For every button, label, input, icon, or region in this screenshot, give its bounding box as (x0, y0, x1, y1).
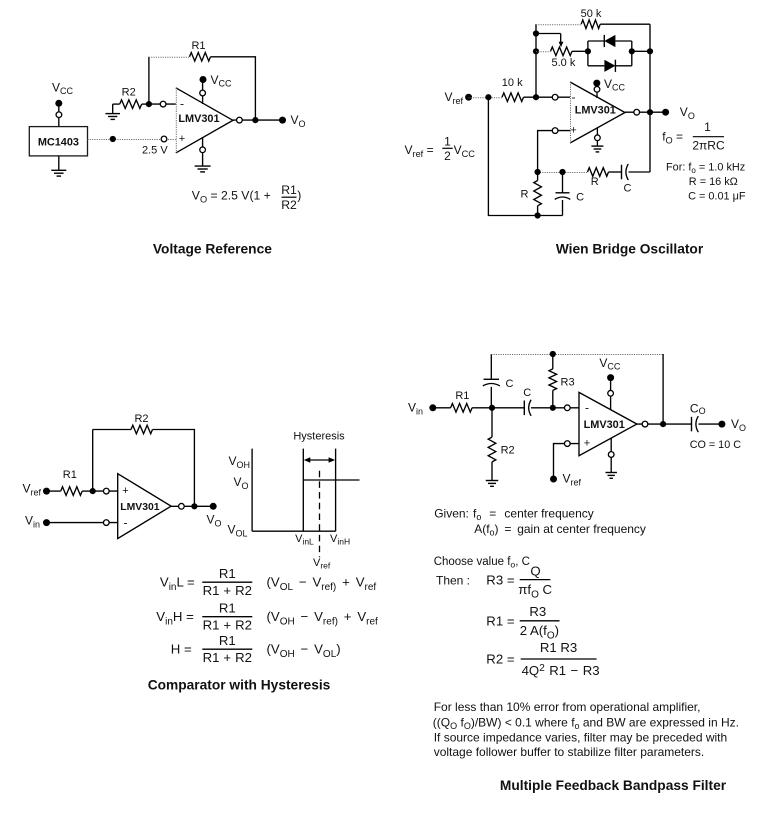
Vcc pin wire (wien) (596, 83, 598, 98)
wire (5.0k to diode pair) (572, 50, 588, 52)
svg-text:+: + (570, 125, 576, 137)
VinL threshold line (302, 449, 304, 532)
R1 label (bandpass) (455, 390, 469, 402)
formula Vo = 2.5 V(1 + R1/R2) (192, 183, 301, 212)
hysteresis arrow (304, 457, 335, 463)
R label (parallel) (521, 189, 529, 201)
wire (diode box to right rail) (632, 50, 650, 52)
Vcc pin wire (bandpass) (610, 378, 612, 410)
title Voltage Reference (153, 242, 272, 257)
svg-text:LMV301: LMV301 (584, 419, 625, 431)
svg-text:R1 =: R1 = (486, 613, 515, 628)
Vcc terminal dot (op-amp) (200, 76, 207, 83)
Vcc pin wire (202, 80, 204, 105)
R1 label (comparator) (63, 469, 77, 481)
note C = 0.01 uF (688, 190, 746, 202)
wire (Vref rail) (488, 97, 562, 215)
Vcc terminal dot (bandpass) (607, 374, 614, 381)
Vref label (bandpass) (563, 472, 582, 488)
10 k label (502, 77, 523, 89)
R2 label (122, 87, 136, 99)
svg-text:+: + (584, 438, 590, 450)
note A(fo) (474, 522, 646, 538)
wire (top 50k row right) (600, 23, 650, 25)
svg-text:For: fo = 1.0 kHz: For: fo = 1.0 kHz (666, 162, 745, 176)
C label (series cap) (523, 387, 531, 399)
node (wiper feed) (533, 30, 539, 36)
pin circle (inverting input comparator) (103, 520, 109, 526)
pin circle (ground pin) (200, 147, 206, 153)
R label (series) (591, 176, 599, 188)
wire (2.5V reference to noninverting input) (88, 139, 176, 141)
Vin label (bandpass) (408, 400, 423, 416)
ground (R2) (105, 104, 120, 119)
Vo label (wien) (680, 105, 695, 121)
diode D2 (anode left, cathode right) (604, 60, 615, 72)
Vcc terminal dot (wien op-amp) (593, 80, 600, 87)
2.5 V label (142, 145, 168, 157)
title Multiple Feedback Bandpass Filter (500, 778, 727, 793)
pin circle (bandpass Vcc pin) (608, 390, 614, 396)
note error paragraph line 3 (434, 731, 727, 745)
op-amp U3 LMV301 (118, 474, 171, 539)
Vo label (bandpass) (731, 417, 746, 433)
Vref terminal dot (bandpass) (550, 476, 557, 483)
wire (top feedback rail) (491, 354, 663, 356)
svg-text:=: = (489, 507, 496, 521)
node (R parallel junction) (535, 169, 541, 175)
pin circle (inverting input wien) (552, 94, 558, 100)
wire (10k to inverting input) (524, 96, 571, 98)
pin circle (wien Vcc pin) (594, 86, 600, 92)
wire (R to C series) (609, 171, 622, 173)
svg-text:1: 1 (444, 135, 451, 149)
wire (5.0k left lead) (536, 51, 551, 53)
svg-text:R1: R1 (219, 600, 236, 615)
node (inverting node wien) (533, 94, 539, 100)
pin circle (noninverting input bandpass) (564, 441, 570, 447)
formula R3 (436, 563, 553, 600)
Vref label (graph) (313, 557, 331, 571)
wire (Vcc to MC1403) (58, 103, 60, 126)
VinH label (330, 533, 350, 547)
svg-text:R1: R1 (219, 633, 236, 648)
node (comparator output junction) (191, 503, 197, 509)
Vo terminal dot (wien) (662, 109, 669, 116)
VOL label (228, 523, 248, 539)
Vcc label (op-amp supply) (211, 73, 233, 88)
node (wien output junction) (647, 109, 653, 115)
note error paragraph line 4 (434, 745, 705, 759)
ground (MC1403) (51, 156, 66, 176)
node (R3 top junction) (550, 351, 556, 357)
svg-text:=: = (504, 522, 511, 536)
VO label (graph) (234, 475, 249, 491)
VOH label (229, 454, 251, 470)
node (output junction) (252, 117, 258, 123)
ground pin wire (wien) (596, 128, 598, 146)
Vcc label (voltage reference supply) (52, 81, 74, 96)
svg-text:2.5 V: 2.5 V (142, 145, 168, 157)
svg-text:LMV301: LMV301 (120, 502, 159, 513)
pin circle (noninverting input comparator) (103, 488, 109, 494)
resistor R1 (190, 53, 211, 62)
wire (Vref to 10k) (469, 97, 502, 99)
svg-text:R1: R1 (455, 390, 469, 402)
svg-text:R1 + R2: R1 + R2 (203, 650, 252, 665)
5.0 k label (551, 57, 575, 69)
formula R2 (486, 640, 599, 678)
wire (to noninverting input) (93, 490, 118, 492)
svg-text:4Q2 R1 − R3: 4Q2 R1 − R3 (522, 663, 600, 678)
svg-text:R2: R2 (501, 445, 515, 457)
output level line (303, 479, 359, 481)
svg-text:-: - (585, 401, 589, 415)
50 k label (581, 8, 602, 20)
svg-text:C = 0.01 μF: C = 0.01 μF (688, 190, 746, 202)
pin circle (noninverting input) (161, 136, 167, 142)
svg-text:C: C (624, 183, 632, 195)
svg-text:50 k: 50 k (581, 8, 602, 20)
wire (feedback left) (149, 57, 190, 104)
svg-text:R1: R1 (63, 469, 77, 481)
wire (wien output) (625, 111, 666, 113)
note error paragraph line 1 (434, 700, 701, 714)
formula VinH (156, 600, 378, 632)
Vcc label (wien op-amp) (604, 77, 626, 92)
pin circle (MC1403 Vcc pin) (56, 112, 62, 118)
wire (right feedback rail) (662, 354, 664, 424)
svg-text:R2: R2 (281, 198, 297, 212)
svg-text:voltage follower buffer to sta: voltage follower buffer to stabilize fil… (434, 745, 705, 759)
svg-text:C: C (523, 387, 531, 399)
svg-text:+: + (179, 133, 185, 145)
wire (diode box frame) (588, 41, 632, 66)
resistor R (parallel) (534, 172, 542, 216)
resistor R2 (bandpass) (488, 408, 496, 481)
svg-text:R3 =: R3 = (486, 572, 515, 587)
svg-text:R = 16 kΩ: R = 16 kΩ (689, 176, 738, 188)
op-amp U1 LMV301 (176, 88, 233, 153)
node (diode box left) (585, 48, 591, 54)
capacitor C (series input) (492, 400, 553, 416)
svg-text:R1 + R2: R1 + R2 (203, 583, 252, 598)
note Given fo (434, 507, 594, 523)
wire (wiper feed) (536, 34, 561, 44)
Vin terminal dot (comparator) (43, 519, 50, 526)
formula fo = 1/2piRC (662, 120, 725, 152)
diode D1 (anode right, cathode left) (604, 35, 615, 47)
pin circle (bandpass ground pin) (608, 452, 614, 458)
wire (feedback right) (211, 57, 256, 120)
svg-text:fO =: fO = (662, 130, 683, 146)
wire (RC row left) (538, 172, 588, 174)
svg-text:gain at center frequency: gain at center frequency (517, 522, 646, 536)
wire (top 50k row left) (536, 24, 581, 26)
svg-text:Comparator with Hysteresis: Comparator with Hysteresis (148, 678, 331, 693)
Vo label (comparator) (207, 513, 222, 529)
wire (feedback right comparator) (153, 430, 195, 507)
svg-text:R1 + R2: R1 + R2 (203, 617, 252, 632)
graph y-axis (251, 449, 253, 532)
op-amp U4 LMV301 (579, 392, 637, 455)
ground (wien op-amp) (591, 146, 603, 152)
note Choose value (434, 556, 530, 570)
Vcc terminal dot (55, 100, 62, 107)
capacitor C (parallel) (555, 172, 571, 216)
pin circle (noninverting input wien) (552, 128, 558, 134)
R2 label (comparator) (134, 413, 148, 425)
svg-text:R2 =: R2 = (486, 652, 515, 667)
graph x-axis (252, 530, 336, 532)
capacitor Co (output) (692, 416, 722, 432)
svg-text:+: + (122, 485, 128, 497)
svg-text:10 k: 10 k (502, 77, 523, 89)
node (bandpass output junction) (660, 421, 666, 427)
ground pin wire (202, 137, 204, 166)
svg-text:-: - (124, 515, 128, 529)
svg-text:1: 1 (704, 120, 711, 134)
wire (noninverting input wien) (538, 131, 570, 172)
svg-text:Given:: Given: (434, 507, 469, 521)
wire (to inverting input bandpass) (553, 407, 579, 409)
title Wien Bridge Oscillator (556, 242, 704, 257)
resistor R1 (comparator) (47, 487, 93, 496)
pin circle (output) (237, 117, 243, 123)
wire (noninverting input bandpass) (554, 444, 580, 479)
svg-text:If source impedance varies, fi: If source impedance varies, filter may b… (434, 731, 727, 745)
wire (right rail) (649, 24, 651, 172)
svg-text:5.0 k: 5.0 k (551, 57, 575, 69)
pin circle (inverting input bandpass) (564, 405, 570, 411)
note R = 16 kOhm (689, 176, 738, 188)
wire (Vin to inverting input) (47, 522, 118, 524)
resistor 5.0 k (551, 47, 573, 56)
resistor R1 (bandpass) (433, 404, 492, 413)
ground (R2 bandpass) (486, 481, 499, 487)
Co label (690, 401, 706, 416)
wire (feedback vertical) (535, 24, 537, 97)
svg-text:LMV301: LMV301 (178, 113, 219, 125)
Vcc label (bandpass op-amp) (599, 356, 621, 371)
node (2.5V node) (110, 136, 116, 142)
pin circle (comparator output) (179, 503, 185, 509)
svg-text:R2: R2 (122, 87, 136, 99)
note error paragraph line 2 (433, 715, 739, 731)
VinH threshold line (335, 449, 337, 532)
svg-text:LMV301: LMV301 (575, 105, 616, 117)
resistor R2 (comparator feedback) (131, 425, 153, 434)
svg-text:R3: R3 (561, 377, 575, 389)
svg-text:-: - (572, 90, 576, 104)
svg-text:2: 2 (444, 149, 451, 163)
svg-text:Hysteresis: Hysteresis (293, 431, 345, 443)
svg-text:Choose value fo, C: Choose value fo, C (434, 556, 530, 570)
node (input summing node) (489, 405, 495, 411)
pin circle (bandpass output) (642, 421, 648, 427)
ground (bandpass op-amp) (605, 473, 617, 479)
svg-text:R: R (591, 176, 599, 188)
wire (inverting input) (149, 103, 176, 105)
wire (comparator output) (171, 505, 213, 507)
wire (output) (233, 119, 283, 121)
C label (parallel) (576, 192, 584, 204)
svg-text:CO = 10 C: CO = 10 C (690, 439, 742, 451)
svg-text:For less than 10% error from o: For less than 10% error from operational… (434, 700, 701, 714)
node (C parallel junction) (559, 169, 565, 175)
node (diode box right) (629, 48, 635, 54)
svg-text:Voltage Reference: Voltage Reference (153, 242, 272, 257)
svg-text:Wien Bridge Oscillator: Wien Bridge Oscillator (556, 242, 704, 257)
title Comparator with Hysteresis (148, 678, 331, 693)
svg-text:R: R (521, 189, 529, 201)
resistor R (series) (588, 168, 609, 177)
svg-text:2πRC: 2πRC (692, 138, 725, 152)
svg-text:C: C (506, 378, 514, 390)
Vref dashed line (319, 471, 321, 558)
pin circle (Vcc pin) (200, 90, 206, 96)
svg-text:R1: R1 (191, 40, 205, 52)
ground (op-amp) (195, 166, 211, 172)
wire (feedback left comparator) (93, 430, 131, 492)
Vref label (comparator) (23, 482, 42, 498)
Vref terminal dot (wien) (465, 94, 472, 101)
resistor 10 k (502, 93, 524, 102)
wire (bandpass output) (637, 423, 692, 425)
svg-text:R1: R1 (219, 566, 236, 581)
Vin terminal dot (bandpass) (429, 404, 436, 411)
Vo terminal dot (279, 117, 286, 124)
svg-text:Then :: Then : (436, 573, 470, 587)
node (5.0k row) (533, 48, 539, 54)
svg-text:C: C (576, 192, 584, 204)
C label (feedback cap) (506, 378, 514, 390)
pin circle (wien output) (634, 109, 640, 115)
C label (series) (624, 183, 632, 195)
svg-text:Multiple Feedback Bandpass Fil: Multiple Feedback Bandpass Filter (500, 778, 727, 793)
wire (C to right rail) (629, 171, 651, 173)
Vo terminal dot (bandpass) (718, 421, 725, 428)
node (bottom junction) (535, 212, 541, 218)
op-amp U2 LMV301 (570, 82, 625, 143)
R3 label (561, 377, 575, 389)
VinL label (295, 533, 314, 547)
Vref terminal dot (comparator) (43, 488, 50, 495)
capacitor C (feedback, vertical) (483, 354, 500, 408)
node (inverting node bandpass) (550, 405, 556, 411)
node (right rail at diode row) (647, 48, 653, 54)
svg-text:Q: Q (530, 563, 540, 578)
wiper arrow (5.0k rheostat) (559, 42, 564, 48)
R2 label (bandpass) (501, 445, 515, 457)
node (inverting input) (146, 101, 152, 107)
Hysteresis label (293, 431, 345, 443)
svg-text:): ) (297, 189, 301, 203)
svg-text:R1: R1 (281, 183, 297, 197)
svg-text:center frequency: center frequency (504, 507, 593, 521)
R1 label (191, 40, 205, 52)
node (Vref junction) (485, 94, 491, 100)
Vo terminal dot (comparator) (210, 503, 217, 510)
resistor R2 (113, 100, 149, 109)
formula VinL (160, 566, 376, 598)
formula H (171, 633, 341, 665)
svg-text:R2: R2 (134, 413, 148, 425)
note CO = 10 C (690, 439, 742, 451)
svg-text:H =: H = (171, 642, 192, 657)
ground pin wire (bandpass) (610, 438, 612, 473)
formula Vref = 1/2 Vcc (405, 135, 476, 163)
Vin label (comparator) (25, 514, 40, 530)
svg-text:R3: R3 (529, 604, 546, 619)
svg-text:A(fo): A(fo) (474, 522, 498, 538)
IC MC1403 (29, 127, 87, 156)
pin circle (inverting input) (160, 101, 166, 107)
resistor R3 (549, 354, 557, 408)
svg-text:-: - (180, 97, 184, 111)
resistor 50 k (581, 20, 600, 29)
svg-text:MC1403: MC1403 (38, 137, 79, 149)
svg-text:R1 R3: R1 R3 (540, 640, 577, 655)
Vo label (291, 113, 306, 129)
capacitor C (series) (622, 164, 629, 180)
note For: fo = 1.0 kHz (666, 162, 745, 176)
Vref label (wien) (445, 90, 464, 106)
pin circle (wien ground pin) (595, 135, 601, 141)
formula R1 (486, 604, 559, 642)
svg-text:((QO fO)/BW) < 0.1 where fo an: ((QO fO)/BW) < 0.1 where fo and BW are e… (433, 715, 739, 731)
node (noninverting node comparator) (90, 488, 96, 494)
